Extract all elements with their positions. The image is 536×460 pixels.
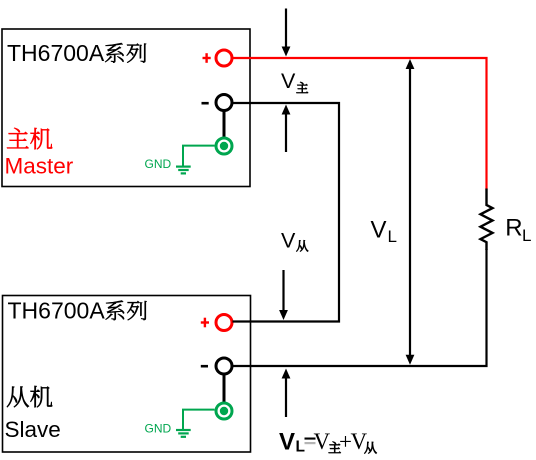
power supply box U2 (slave TH6700A) — [3, 296, 251, 453]
label: TH6700A系列 (master title) — [7, 40, 146, 66]
label RL — [505, 215, 531, 246]
svg-text:L: L — [388, 227, 397, 246]
svg-text:TH6700A: TH6700A — [8, 298, 106, 324]
svg-text:V: V — [351, 429, 368, 454]
wire: master + to load RL (red) — [232, 58, 487, 190]
svg-text:TH6700A: TH6700A — [7, 40, 105, 66]
wire: master - terminal to slave + terminal — [232, 103, 339, 322]
label V从 — [281, 228, 308, 252]
pin label - (slave) — [201, 365, 208, 368]
arrow up at slave - wire (at formula) — [282, 369, 291, 418]
svg-text:L: L — [296, 439, 305, 456]
dimension arrow VL (between red wire and bottom wire) — [406, 59, 415, 365]
svg-text:Slave: Slave — [5, 417, 61, 442]
svg-text:V: V — [314, 429, 331, 454]
wire: GND terminal to ground symbol (slave, green) — [183, 410, 215, 429]
svg-text:Master: Master — [5, 154, 74, 179]
label: 主机 (master, red) — [7, 128, 52, 149]
power supply box U1 (master TH6700A) — [2, 29, 250, 187]
label: 从机 (slave) — [7, 386, 52, 407]
pin label + (master) — [203, 53, 211, 63]
svg-text:V: V — [281, 69, 296, 93]
pin label + (slave) — [201, 318, 209, 328]
svg-text:V: V — [279, 429, 295, 456]
svg-text:V: V — [281, 228, 296, 252]
label VL — [371, 217, 397, 246]
label V主 — [281, 69, 308, 93]
GND terminal (master) — [216, 138, 232, 154]
wire: GND terminal to ground symbol (master, green) — [183, 146, 215, 166]
ground symbol (master) — [176, 167, 191, 174]
terminal - (slave) — [216, 358, 232, 374]
formula VL=V主+V从 — [279, 429, 377, 456]
wire: master - terminal to GND terminal — [223, 111, 226, 139]
pin label - (master) — [202, 102, 209, 105]
wire: slave - terminal to GND terminal — [223, 374, 226, 403]
resistor RL — [481, 189, 493, 251]
terminal + (master) — [216, 50, 232, 66]
label: TH6700A系列 (slave title) — [8, 298, 147, 324]
svg-text:L: L — [522, 226, 531, 245]
svg-text:V: V — [371, 217, 387, 244]
GND terminal (slave) — [216, 403, 232, 419]
ground symbol (slave) — [176, 430, 191, 437]
arrow into red wire from top (current direction) — [282, 9, 291, 57]
svg-text:R: R — [505, 215, 522, 242]
svg-text:GND: GND — [145, 157, 172, 171]
arrow down at slave + wire (V从 dimension) — [279, 270, 288, 320]
svg-text:GND: GND — [145, 421, 172, 435]
wire: RL bottom to slave - terminal — [233, 249, 487, 366]
arrow up at master - wire (V主 dimension) — [282, 105, 291, 153]
terminal + (slave) — [216, 315, 232, 331]
terminal - (master) — [216, 95, 232, 111]
